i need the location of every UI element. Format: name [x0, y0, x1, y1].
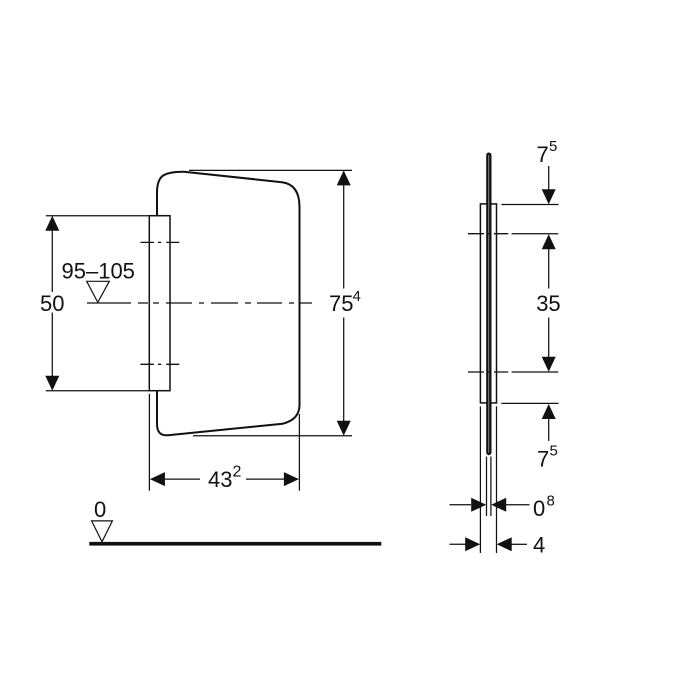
svg-text:75: 75 — [329, 291, 353, 316]
svg-text:4: 4 — [353, 288, 361, 305]
svg-text:0: 0 — [94, 497, 106, 522]
svg-text:7: 7 — [537, 446, 549, 471]
svg-text:2: 2 — [233, 464, 242, 481]
svg-text:8: 8 — [547, 492, 555, 509]
svg-text:43: 43 — [208, 467, 232, 492]
svg-text:5: 5 — [550, 443, 558, 460]
svg-text:0: 0 — [533, 496, 545, 521]
svg-text:95–105: 95–105 — [62, 258, 135, 283]
svg-text:50: 50 — [40, 291, 64, 316]
svg-text:4: 4 — [533, 532, 545, 557]
svg-text:7: 7 — [537, 142, 549, 167]
svg-text:5: 5 — [549, 138, 557, 155]
svg-text:35: 35 — [536, 291, 560, 316]
